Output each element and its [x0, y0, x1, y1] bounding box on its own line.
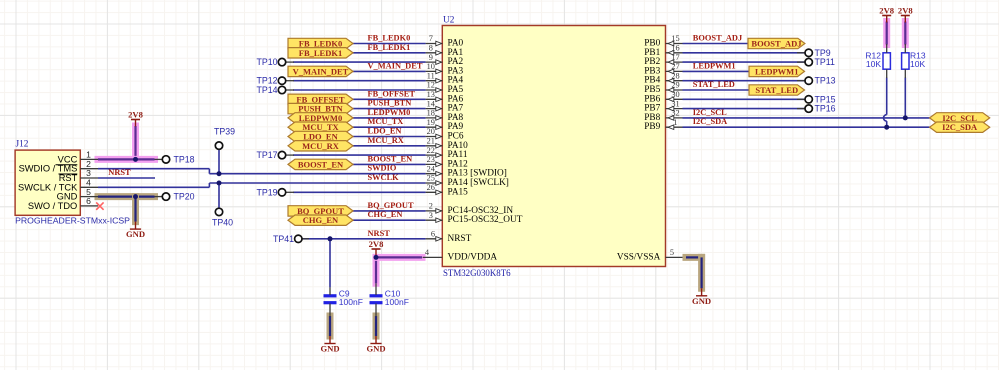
svg-text:STAT_LED: STAT_LED — [755, 85, 798, 95]
svg-text:TP41: TP41 — [273, 234, 294, 244]
svg-text:13: 13 — [427, 90, 435, 99]
svg-text:BOOST_EN: BOOST_EN — [368, 154, 413, 163]
svg-text:PC15-OSC32_OUT: PC15-OSC32_OUT — [448, 215, 523, 225]
svg-text:STM32G030K8T6: STM32G030K8T6 — [443, 268, 511, 278]
svg-text:STAT_LED: STAT_LED — [693, 80, 735, 89]
svg-text:VSS/VSSA: VSS/VSSA — [617, 252, 661, 262]
svg-text:FB_OFFSET: FB_OFFSET — [368, 89, 416, 98]
svg-text:8: 8 — [429, 44, 433, 53]
svg-text:GND: GND — [126, 229, 145, 239]
svg-text:10K: 10K — [866, 59, 881, 69]
svg-text:SWO / TDO: SWO / TDO — [28, 201, 77, 211]
svg-text:TP14: TP14 — [256, 85, 277, 95]
svg-text:V_MAIN_DET: V_MAIN_DET — [293, 66, 349, 76]
svg-text:29: 29 — [671, 81, 679, 90]
svg-text:TP16: TP16 — [815, 104, 836, 114]
svg-text:TP19: TP19 — [256, 187, 277, 197]
svg-text:MCU_RX: MCU_RX — [368, 136, 404, 145]
svg-text:V_MAIN_DET: V_MAIN_DET — [368, 61, 423, 70]
svg-text:VDD/VDDA: VDD/VDDA — [448, 252, 498, 262]
svg-text:FB_LEDK1: FB_LEDK1 — [368, 43, 411, 52]
svg-text:15: 15 — [671, 34, 679, 43]
svg-text:MCU_RX: MCU_RX — [302, 141, 340, 151]
svg-text:10K: 10K — [910, 59, 925, 69]
svg-text:19: 19 — [427, 118, 435, 127]
svg-text:PROGHEADER-STMxx-ICSP: PROGHEADER-STMxx-ICSP — [15, 216, 130, 226]
svg-text:GND: GND — [320, 344, 339, 354]
svg-text:5: 5 — [670, 248, 674, 257]
svg-text:7: 7 — [429, 34, 433, 43]
svg-text:TP18: TP18 — [174, 154, 195, 164]
svg-text:1: 1 — [673, 118, 677, 127]
svg-text:31: 31 — [671, 99, 679, 108]
svg-text:LEDPWM1: LEDPWM1 — [693, 61, 736, 70]
svg-text:FB_LEDK0: FB_LEDK0 — [368, 34, 411, 43]
svg-text:BQ_GPOUT: BQ_GPOUT — [368, 201, 414, 210]
svg-text:22: 22 — [427, 146, 435, 155]
svg-text:20: 20 — [427, 127, 435, 136]
svg-text:TP40: TP40 — [212, 218, 233, 228]
svg-text:25: 25 — [427, 174, 435, 183]
svg-text:100nF: 100nF — [385, 297, 409, 307]
svg-text:24: 24 — [427, 164, 436, 173]
svg-text:6: 6 — [431, 230, 435, 239]
svg-text:SWCLK: SWCLK — [368, 173, 400, 182]
svg-text:26: 26 — [427, 183, 435, 192]
svg-text:TP17: TP17 — [256, 150, 277, 160]
svg-text:CHG_EN: CHG_EN — [303, 215, 339, 225]
svg-text:27: 27 — [671, 62, 679, 71]
svg-text:NRST: NRST — [108, 168, 131, 177]
svg-text:32: 32 — [671, 109, 679, 118]
svg-text:21: 21 — [427, 137, 435, 146]
svg-text:BOOST_EN: BOOST_EN — [298, 159, 344, 169]
svg-text:I2C_SCL: I2C_SCL — [693, 108, 727, 117]
svg-text:GND: GND — [366, 344, 385, 354]
svg-text:PA15: PA15 — [448, 187, 469, 197]
svg-text:6: 6 — [86, 196, 91, 206]
svg-text:14: 14 — [427, 99, 436, 108]
svg-text:2V8: 2V8 — [369, 239, 385, 249]
svg-text:I2C_SDA: I2C_SDA — [942, 122, 978, 132]
svg-text:9: 9 — [429, 53, 433, 62]
svg-text:11: 11 — [427, 71, 435, 80]
svg-text:GND: GND — [692, 296, 711, 306]
svg-text:U2: U2 — [443, 16, 455, 26]
svg-text:2V8: 2V8 — [898, 6, 914, 16]
svg-text:TP13: TP13 — [815, 76, 836, 86]
svg-text:100nF: 100nF — [339, 297, 363, 307]
svg-text:12: 12 — [427, 81, 435, 90]
svg-text:28: 28 — [671, 71, 679, 80]
svg-text:TP39: TP39 — [214, 127, 235, 137]
svg-text:NRST: NRST — [448, 234, 472, 244]
svg-text:LEDPWM1: LEDPWM1 — [755, 66, 798, 76]
svg-text:30: 30 — [671, 90, 679, 99]
svg-text:2V8: 2V8 — [879, 6, 895, 16]
svg-text:PUSH_BTN: PUSH_BTN — [368, 99, 412, 108]
svg-text:NRST: NRST — [368, 229, 391, 238]
svg-text:10: 10 — [427, 62, 435, 71]
svg-text:18: 18 — [427, 109, 435, 118]
svg-text:SWDIO: SWDIO — [368, 164, 397, 173]
svg-text:TP20: TP20 — [174, 192, 195, 202]
svg-text:2V8: 2V8 — [128, 110, 144, 120]
svg-text:17: 17 — [671, 53, 679, 62]
svg-text:MCU_TX: MCU_TX — [368, 117, 404, 126]
svg-text:CHG_EN: CHG_EN — [368, 210, 403, 219]
svg-text:TP11: TP11 — [815, 57, 835, 67]
svg-text:TP10: TP10 — [256, 57, 277, 67]
svg-text:BOOST_ADJ: BOOST_ADJ — [693, 34, 742, 43]
svg-text:LDO_EN: LDO_EN — [368, 127, 402, 136]
svg-text:J12: J12 — [16, 140, 29, 150]
svg-text:PB9: PB9 — [644, 122, 660, 132]
svg-text:BOOST_ADJ: BOOST_ADJ — [751, 39, 802, 49]
svg-text:I2C_SDA: I2C_SDA — [693, 117, 727, 126]
svg-text:3: 3 — [429, 211, 433, 220]
svg-text:LEDPWM0: LEDPWM0 — [368, 108, 411, 117]
svg-text:FB_LEDK1: FB_LEDK1 — [299, 48, 342, 58]
svg-text:2: 2 — [429, 202, 433, 211]
svg-text:23: 23 — [427, 155, 435, 164]
svg-text:16: 16 — [671, 44, 679, 53]
